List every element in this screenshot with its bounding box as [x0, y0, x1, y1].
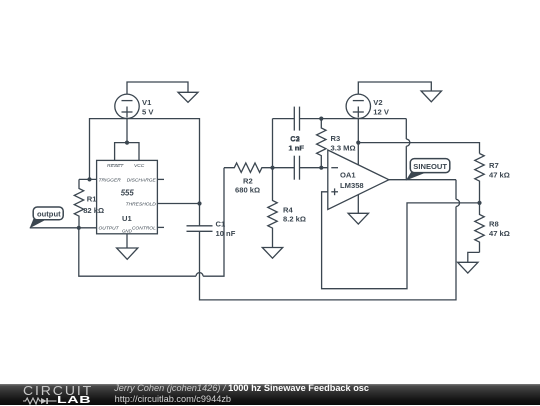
flag SINEOUT [406, 159, 450, 181]
wire hop (over supply wire) [406, 139, 410, 146]
label R4 8.2 kOhm [283, 205, 306, 223]
node trigger junction [87, 177, 91, 181]
svg-text:R4: R4 [283, 205, 293, 214]
svg-text:12 V: 12 V [373, 108, 390, 117]
pin label OUTPUT [99, 226, 120, 232]
resistor R8 [475, 203, 484, 253]
wire 555 output down [79, 228, 196, 276]
wire V2 bottom [357, 119, 359, 143]
ground (U1) [117, 248, 138, 259]
wire supply to R7 [358, 143, 479, 154]
svg-text:CONTROL: CONTROL [132, 226, 156, 232]
node R3 bottom junction [319, 166, 323, 170]
voltage source V1 [115, 94, 139, 118]
svg-text:10 nF: 10 nF [216, 229, 236, 238]
wire threshold to C1 [199, 204, 201, 226]
label R8 47 kOhm [489, 220, 510, 239]
wire hop (output feedback over R7 junction wire) [456, 199, 460, 206]
wire V1 plus rail [90, 119, 200, 204]
wire top rail to C3 [273, 118, 295, 120]
label R2 680 kOhm [235, 177, 260, 195]
svg-text:555: 555 [121, 189, 135, 198]
capacitor C1 [187, 226, 213, 232]
label R1 82 kOhm [83, 194, 104, 215]
flag output [30, 207, 64, 228]
svg-text:R1: R1 [87, 194, 97, 203]
svg-text:R2: R2 [243, 177, 253, 186]
svg-text:U1: U1 [122, 214, 132, 223]
wire V2 top to ground [358, 82, 431, 94]
node V1 reset loop junction [125, 141, 129, 145]
svg-text:R8: R8 [489, 220, 499, 229]
svg-text:82 kΩ: 82 kΩ [83, 206, 104, 215]
voltage source V2 [346, 94, 370, 118]
svg-text:LM358: LM358 [340, 181, 364, 190]
pin label RESET [107, 163, 124, 169]
wire opamp V- stub [357, 195, 359, 213]
wire opamp output [389, 179, 456, 181]
node output junction [77, 226, 81, 230]
wire C2 right [300, 167, 328, 169]
wire feedback top [455, 180, 457, 200]
node V2 supply junction [356, 141, 360, 145]
wire trigger [79, 178, 97, 180]
op-amp OA1 [328, 150, 389, 209]
resistor R7 [475, 154, 484, 203]
label V2 12 V [373, 98, 390, 117]
logo CIRCUIT [23, 383, 93, 398]
label C3 1 nF [288, 134, 304, 152]
label U1 [122, 214, 132, 223]
capacitor C2 [294, 156, 299, 180]
wire C2 left [273, 167, 295, 169]
node R2/R4/C2 junction [270, 166, 274, 170]
svg-text:OA1: OA1 [340, 171, 356, 180]
wire output [30, 227, 97, 229]
svg-text:1 nF: 1 nF [289, 143, 305, 152]
resistor R4 [268, 168, 277, 248]
svg-text:C2: C2 [290, 134, 300, 143]
svg-text:680 kΩ: 680 kΩ [235, 186, 260, 195]
wire hop (over C1 branch) [196, 273, 203, 277]
wire 555 gnd pin [126, 234, 128, 248]
svg-text:TRIGGER: TRIGGER [99, 177, 122, 183]
svg-text:VCC: VCC [134, 163, 145, 169]
wire top rail V2 segment [321, 118, 406, 120]
label R3 3.3 MOhm [331, 134, 356, 152]
logo symbol [23, 397, 57, 405]
svg-text:8.2 kΩ: 8.2 kΩ [283, 215, 306, 224]
wire V1 to reset loop [126, 119, 128, 143]
svg-text:V1: V1 [142, 98, 152, 107]
pin label GND [122, 228, 133, 233]
pin label TRIGGER [99, 177, 122, 183]
label V1 5 V [142, 98, 154, 117]
svg-text:SINEOUT: SINEOUT [413, 162, 447, 171]
svg-text:R7: R7 [489, 161, 499, 170]
svg-text:47 kΩ: 47 kΩ [489, 229, 510, 238]
wire C3 right [300, 118, 322, 120]
svg-text:output: output [37, 210, 61, 219]
pin label DISCHARGE [127, 177, 157, 183]
footer text line 1 [114, 383, 369, 393]
svg-text:V2: V2 [373, 98, 382, 107]
node R7 R8 junction [477, 201, 481, 205]
svg-text:OUTPUT: OUTPUT [99, 226, 120, 232]
svg-text:3.3 MΩ: 3.3 MΩ [331, 143, 356, 152]
wire drop to output node [405, 146, 407, 180]
label C2 1 nF (overlapping) [289, 134, 305, 152]
wire to R2 [203, 168, 224, 277]
pin label CONTROL [132, 226, 156, 232]
ground (R4) [262, 248, 282, 259]
footer bar [0, 384, 540, 405]
resistor R1 [74, 179, 83, 227]
wire threshold [157, 203, 199, 205]
wire C2/C3 left link [272, 119, 274, 168]
wire reset-vcc loop [115, 143, 139, 161]
node threshold junction [197, 201, 201, 205]
svg-text:47 kΩ: 47 kΩ [489, 170, 510, 179]
node R3 top junction [319, 117, 323, 121]
svg-text:THRESHOLD: THRESHOLD [126, 202, 157, 208]
pin label THRESHOLD [126, 202, 157, 208]
svg-text:R3: R3 [331, 134, 341, 143]
pin label VCC [134, 163, 145, 169]
footer text line 2 [115, 394, 231, 404]
wire C1 bottom [200, 207, 457, 300]
capacitor C3 [294, 107, 299, 131]
svg-text:DISCHARGE: DISCHARGE [127, 177, 157, 183]
wire R8 to ground jog [468, 252, 480, 262]
wire opamp V+ stub [357, 143, 359, 165]
resistor R3 [317, 119, 326, 168]
svg-text:RESET: RESET [107, 163, 124, 169]
wire top rail drop [405, 119, 407, 140]
label 555 [121, 189, 135, 198]
ground (V1) [178, 92, 198, 102]
ground (R8) [458, 262, 478, 273]
wire V1 top to ground [127, 82, 188, 94]
ground (V2) [421, 91, 441, 102]
resistor R2 [224, 163, 273, 172]
svg-text:5 V: 5 V [142, 108, 154, 117]
label C1 10 nF [216, 220, 236, 238]
logo LAB [57, 394, 91, 406]
label R7 47 kOhm [489, 161, 510, 180]
wire opamp + input loop [322, 192, 480, 289]
IC U1 555 [97, 160, 164, 233]
ground (OA1) [348, 213, 368, 224]
label OA1 LM358 [340, 171, 364, 191]
